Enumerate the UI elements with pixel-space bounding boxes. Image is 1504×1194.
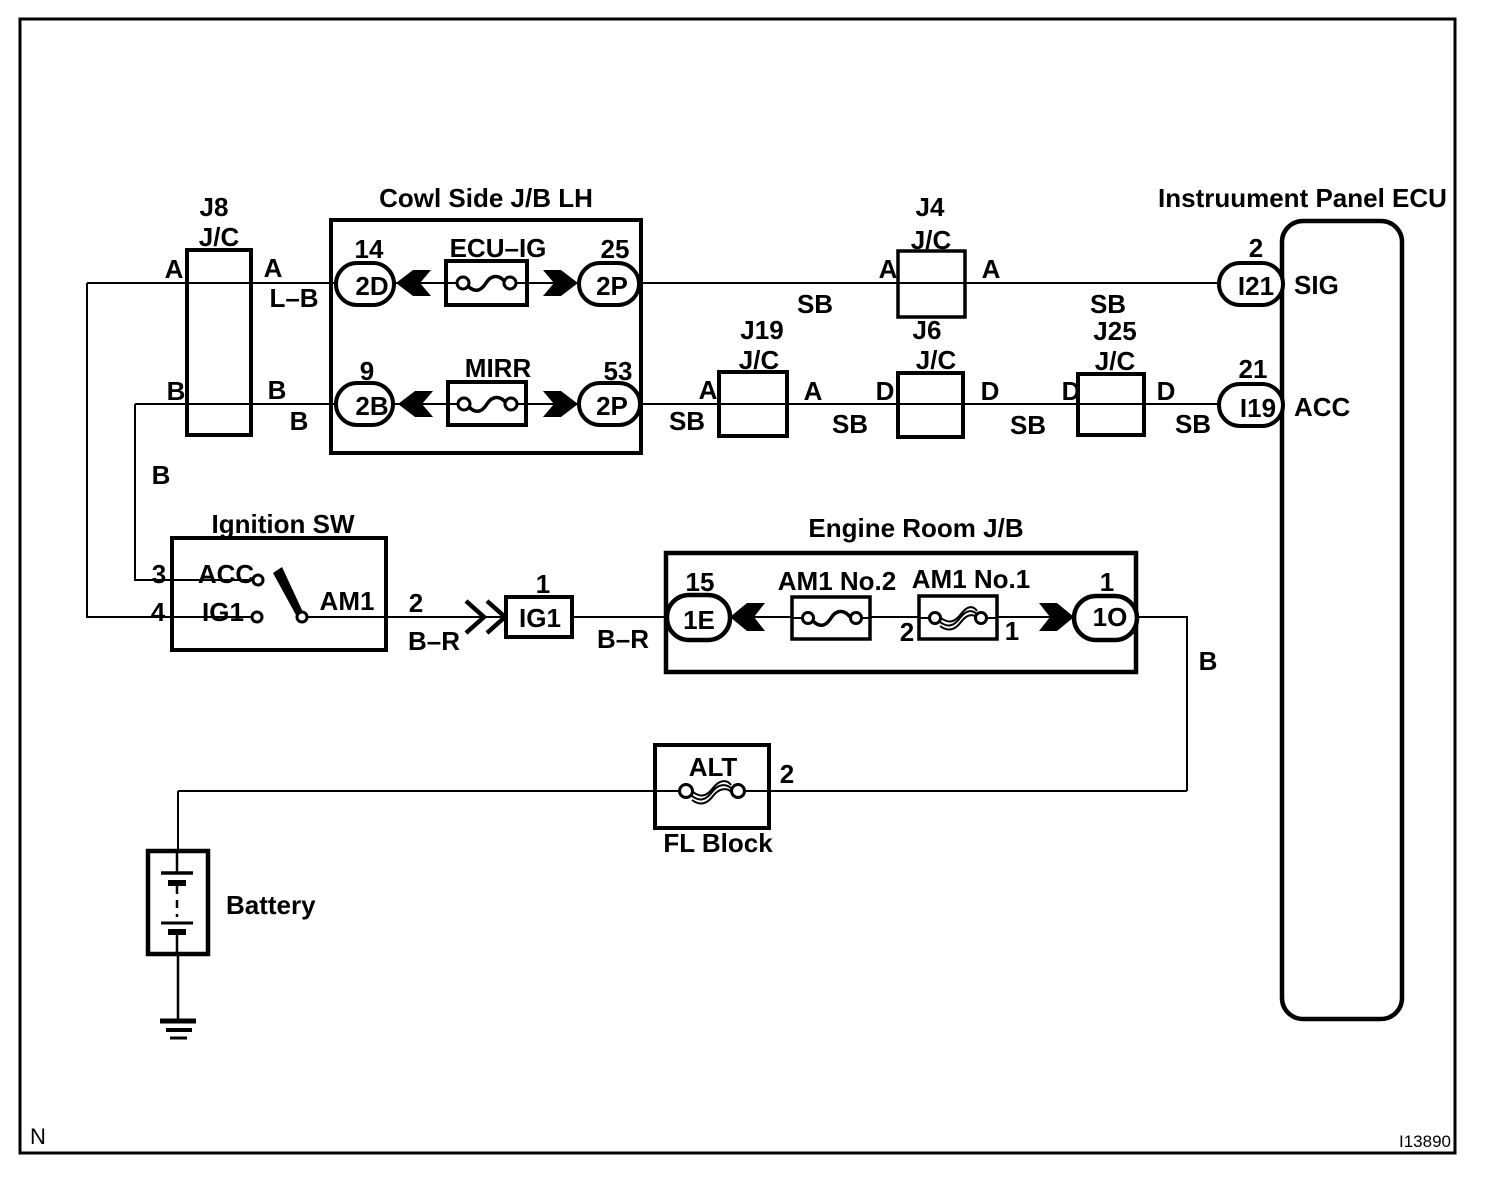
svg-text:A: A	[982, 254, 1001, 284]
terminal 2P pin 53	[579, 356, 640, 425]
svg-text:2B: 2B	[355, 391, 388, 421]
svg-text:SB: SB	[832, 409, 868, 439]
terminal 1O pin 1	[1074, 567, 1137, 640]
svg-text:AM1 No.2: AM1 No.2	[778, 566, 896, 596]
fuse AM1 No.1 fusible link	[912, 564, 1030, 639]
svg-text:MIRR: MIRR	[465, 353, 532, 383]
svg-text:1: 1	[1100, 567, 1114, 597]
svg-text:SB: SB	[1090, 289, 1126, 319]
svg-text:J25: J25	[1093, 316, 1136, 346]
svg-text:ECU–IG: ECU–IG	[450, 233, 547, 263]
arrow left row1	[396, 270, 431, 296]
svg-text:2: 2	[900, 617, 914, 647]
svg-text:L–B: L–B	[269, 283, 318, 313]
svg-text:2P: 2P	[596, 391, 628, 421]
wire: battery to ground	[177, 951, 180, 1019]
arrow right engine	[1039, 603, 1074, 631]
svg-text:SB: SB	[1175, 409, 1211, 439]
svg-text:Battery: Battery	[226, 890, 316, 920]
junction J8 J/C	[187, 192, 251, 435]
svg-text:ACC: ACC	[1294, 392, 1351, 422]
svg-text:J/C: J/C	[199, 222, 240, 252]
svg-text:A: A	[804, 376, 823, 406]
svg-text:B–R: B–R	[597, 624, 649, 654]
terminal 2B pin 9	[336, 356, 393, 425]
svg-text:2: 2	[1249, 233, 1263, 263]
junction J4 J/C	[898, 192, 965, 317]
svg-text:1O: 1O	[1093, 602, 1128, 632]
svg-text:Cowl Side J/B LH: Cowl Side J/B LH	[379, 183, 593, 213]
svg-text:14: 14	[355, 234, 384, 264]
svg-text:J/C: J/C	[1095, 346, 1136, 376]
junction J6 J/C	[898, 315, 963, 437]
svg-text:AM1 No.1: AM1 No.1	[912, 564, 1030, 594]
svg-text:B: B	[152, 460, 171, 490]
svg-text:I19: I19	[1240, 393, 1276, 423]
svg-text:SB: SB	[1010, 410, 1046, 440]
svg-text:J/C: J/C	[739, 345, 780, 375]
svg-text:ALT: ALT	[689, 752, 738, 782]
svg-text:2D: 2D	[355, 271, 388, 301]
svg-text:1: 1	[1005, 616, 1019, 646]
svg-text:FL Block: FL Block	[663, 828, 773, 858]
wire: row1 SIG net	[87, 282, 1219, 284]
svg-text:Ignition SW: Ignition SW	[212, 509, 355, 539]
arrow left engine	[730, 603, 765, 631]
svg-text:D: D	[876, 376, 895, 406]
svg-text:IG1: IG1	[202, 597, 244, 627]
svg-text:1E: 1E	[683, 605, 715, 635]
svg-text:J/C: J/C	[911, 225, 952, 255]
block Cowl Side J/B LH	[331, 183, 641, 453]
block Engine Room J/B	[666, 513, 1136, 672]
terminal I21 pin 2 SIG	[1219, 233, 1339, 305]
block Instrument Panel ECU	[1158, 183, 1447, 1019]
svg-text:53: 53	[604, 356, 633, 386]
svg-text:SB: SB	[797, 289, 833, 319]
svg-text:J/C: J/C	[916, 345, 957, 375]
junction J19 J/C	[719, 315, 787, 436]
wire: row2 ACC net	[135, 403, 1219, 405]
wire: left vertical A to IG1	[87, 283, 252, 617]
svg-text:N: N	[30, 1124, 46, 1149]
svg-text:Instruument Panel ECU: Instruument Panel ECU	[1158, 183, 1447, 213]
svg-text:I13890: I13890	[1399, 1132, 1451, 1151]
svg-text:SIG: SIG	[1294, 270, 1339, 300]
arrow right row2	[543, 391, 578, 417]
svg-text:I21: I21	[1238, 271, 1274, 301]
wire AM1 inside switch	[307, 616, 386, 618]
wire: AM1 row	[386, 617, 1187, 791]
wire: battery drop	[177, 791, 179, 853]
fuse AM1 No.2	[778, 566, 896, 639]
svg-text:IG1: IG1	[519, 603, 561, 633]
svg-text:B–R: B–R	[408, 626, 460, 656]
svg-text:B: B	[268, 375, 287, 405]
ground	[160, 1021, 196, 1038]
svg-text:1: 1	[536, 569, 550, 599]
svg-text:4: 4	[151, 597, 166, 627]
svg-text:B: B	[290, 406, 309, 436]
svg-text:J4: J4	[916, 192, 945, 222]
switch Ignition SW	[151, 509, 386, 650]
svg-text:A: A	[165, 254, 184, 284]
svg-text:9: 9	[360, 356, 374, 386]
svg-text:15: 15	[686, 567, 715, 597]
junction J25 J/C	[1078, 316, 1144, 435]
arrow right row1	[543, 270, 578, 296]
terminal 2D pin 14	[336, 234, 394, 305]
svg-text:21: 21	[1239, 354, 1268, 384]
svg-text:B: B	[167, 376, 186, 406]
fuse MIRR	[448, 353, 531, 425]
terminal I19 pin 21 ACC	[1219, 354, 1351, 426]
svg-text:Engine Room J/B: Engine Room J/B	[808, 513, 1023, 543]
svg-text:J8: J8	[200, 192, 229, 222]
svg-text:AM1: AM1	[320, 586, 375, 616]
terminal 1E pin 15	[667, 567, 730, 640]
connector IG1 pin 1	[506, 569, 572, 637]
svg-text:D: D	[1062, 376, 1081, 406]
svg-text:A: A	[264, 253, 283, 283]
fuse ALT FL block	[655, 745, 773, 858]
svg-text:B: B	[1199, 646, 1218, 676]
svg-text:J19: J19	[740, 315, 783, 345]
svg-text:SB: SB	[669, 406, 705, 436]
svg-text:A: A	[699, 375, 718, 405]
battery	[148, 851, 316, 954]
svg-text:A: A	[879, 254, 898, 284]
svg-text:ACC: ACC	[198, 559, 255, 589]
chevrons	[466, 601, 505, 633]
terminal 2P pin 25	[579, 234, 639, 305]
svg-text:D: D	[981, 376, 1000, 406]
svg-text:2: 2	[780, 759, 794, 789]
svg-text:3: 3	[152, 559, 166, 589]
wire: ALT row	[178, 790, 1187, 792]
wire: left vertical B to ACC	[135, 404, 253, 580]
svg-text:D: D	[1157, 376, 1176, 406]
svg-text:25: 25	[601, 234, 630, 264]
arrow left row2	[398, 391, 433, 417]
fuse ECU-IG	[446, 233, 546, 305]
svg-text:2: 2	[409, 588, 423, 618]
svg-text:2P: 2P	[596, 271, 628, 301]
svg-text:J6: J6	[913, 315, 942, 345]
